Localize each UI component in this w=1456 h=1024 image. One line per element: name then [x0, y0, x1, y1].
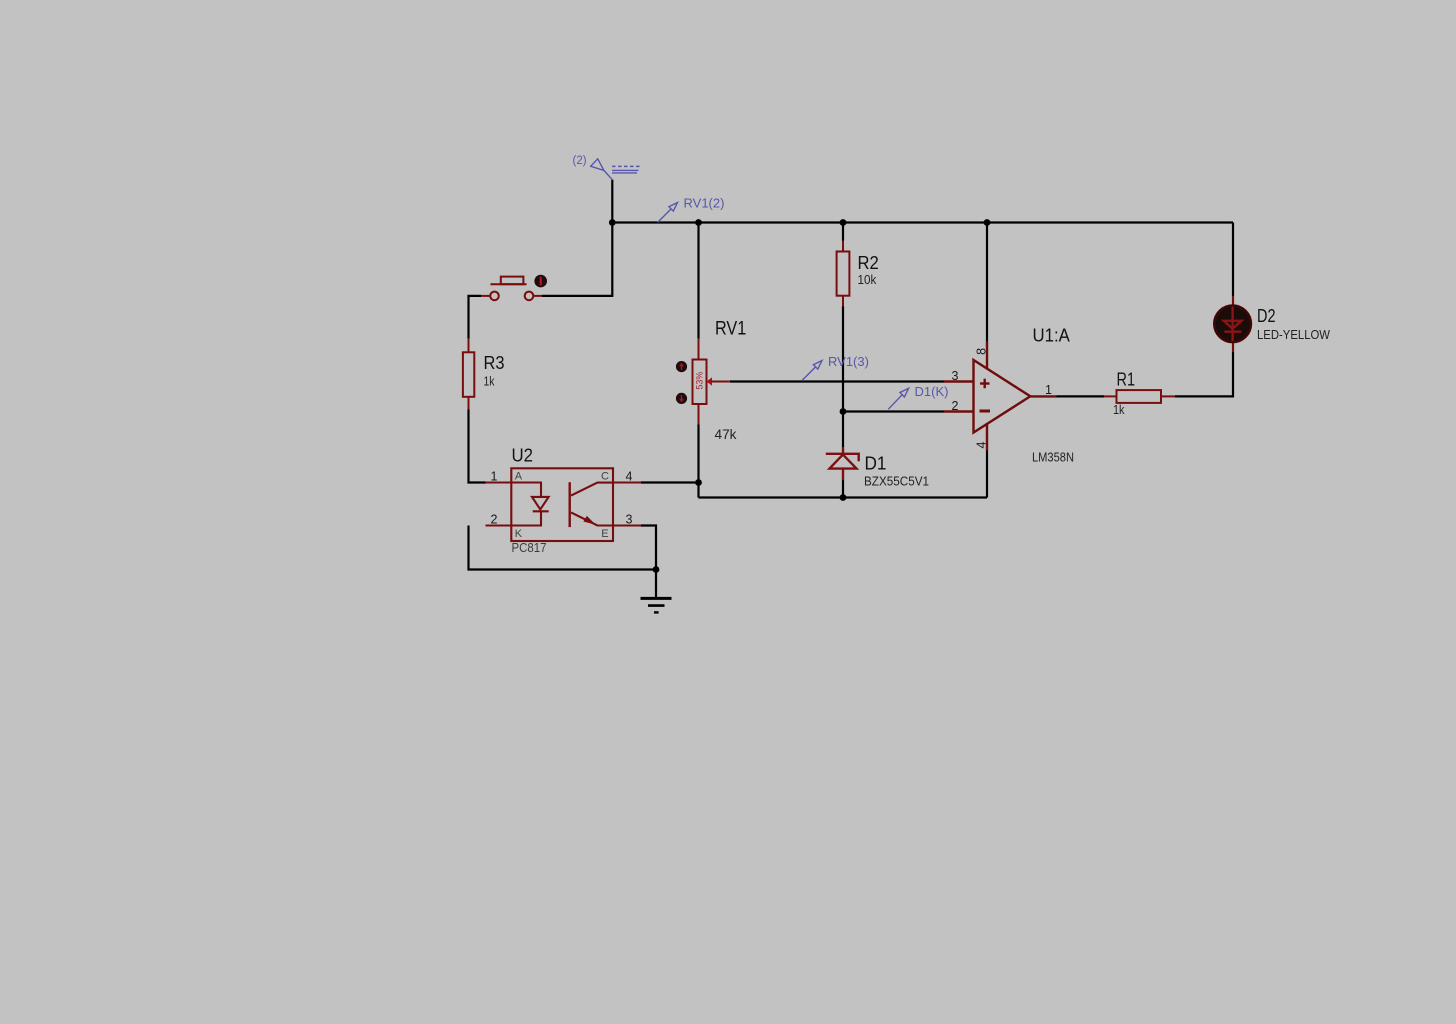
wire right rail top to D2 — [1232, 223, 1234, 297]
internal LED — [511, 483, 541, 497]
wire R2 top — [842, 223, 844, 241]
wire RV1 top — [697, 223, 699, 339]
svg-text:1k: 1k — [1113, 402, 1125, 417]
svg-text:1: 1 — [491, 470, 498, 484]
wire button left to R3 — [469, 296, 482, 339]
optocoupler U2 — [486, 468, 642, 541]
wire node to op-amp pin2 — [843, 410, 944, 412]
junction dots — [609, 219, 991, 573]
net label RV1(3) — [802, 361, 822, 381]
pin 3 stub — [613, 524, 641, 526]
phototransistor — [569, 482, 571, 527]
wire op-amp output to R1 — [1057, 395, 1105, 397]
svg-text:RV1(3): RV1(3) — [828, 354, 869, 369]
wire wiper to op-amp pin3 — [730, 380, 944, 382]
svg-text:D1: D1 — [865, 454, 887, 474]
svg-text:A: A — [515, 470, 523, 482]
pin4 stub — [986, 423, 988, 451]
svg-text:LM358N: LM358N — [1032, 450, 1074, 465]
svg-text:E: E — [601, 528, 608, 540]
U2 pin names — [515, 470, 609, 540]
svg-text:LED-YELLOW: LED-YELLOW — [1257, 328, 1330, 342]
svg-text:2: 2 — [491, 513, 498, 527]
button actuator marker — [534, 275, 547, 288]
resistor R2 — [837, 241, 850, 307]
emitter arrow — [583, 516, 595, 525]
op-amp U1:A — [944, 341, 1057, 451]
svg-text:D1(K): D1(K) — [915, 384, 949, 399]
node probe/top rail — [609, 219, 616, 226]
wire left drop to button — [542, 223, 612, 296]
zener diode D1 — [826, 447, 859, 480]
wire R1 to right rail — [1175, 352, 1233, 396]
wire U2 pin3 to ground node — [641, 526, 656, 599]
wire U2 pin2 loop — [469, 526, 657, 570]
svg-text:K: K — [515, 528, 523, 540]
RV1 down marker — [676, 393, 687, 404]
svg-text:53%: 53% — [695, 372, 705, 390]
svg-text:PC817: PC817 — [512, 540, 547, 555]
wire R2 to D1 — [842, 307, 844, 448]
node D1 bottom — [840, 494, 847, 501]
node inverting input — [840, 408, 847, 415]
node RV1 top — [695, 219, 702, 226]
plus — [980, 382, 990, 384]
svg-text:47k: 47k — [715, 427, 737, 442]
RV1 up marker — [676, 361, 687, 372]
svg-text:3: 3 — [626, 513, 633, 527]
wire RV1 bottom — [697, 425, 699, 498]
wire op-amp pin8 — [986, 223, 988, 342]
svg-text:RV1(2): RV1(2) — [684, 196, 725, 211]
svg-text:10k: 10k — [858, 272, 877, 287]
svg-text:BZX55C5V1: BZX55C5V1 — [864, 474, 929, 489]
voltage probe (2) — [591, 159, 640, 180]
net label RV1(2) — [658, 203, 678, 223]
pin8 stub — [986, 341, 988, 368]
ground — [641, 598, 672, 612]
svg-text:1k: 1k — [484, 374, 495, 389]
potentiometer RV1 — [693, 339, 707, 425]
wire op-amp pin4 — [986, 451, 988, 498]
svg-text:8: 8 — [974, 348, 988, 355]
svg-text:R2: R2 — [858, 253, 879, 273]
wire top rail — [612, 221, 1233, 223]
svg-text:U2: U2 — [512, 446, 534, 466]
svg-text:RV1: RV1 — [715, 319, 746, 340]
svg-text:R1: R1 — [1117, 369, 1136, 389]
svg-text:C: C — [601, 470, 609, 482]
svg-text:R3: R3 — [484, 353, 505, 373]
wire bottom rail — [699, 496, 988, 498]
svg-text:(2): (2) — [573, 155, 587, 167]
U2 pin numbers — [491, 470, 633, 527]
pin 4 stub — [613, 481, 641, 483]
wire R3 bottom to U2 pin1 — [469, 410, 486, 483]
wire probe stem — [611, 180, 613, 223]
LED D2 — [1232, 296, 1234, 307]
pin 2 stub — [486, 524, 512, 526]
push button switch — [481, 277, 542, 301]
svg-text:1: 1 — [1045, 383, 1052, 397]
pin2 stub — [944, 410, 974, 412]
node R2 top — [840, 219, 847, 226]
node op-amp pin8 — [984, 219, 991, 226]
pin3 stub — [944, 380, 974, 382]
resistor R1 — [1104, 390, 1175, 403]
output stub — [1030, 395, 1057, 397]
net label D1(K) — [888, 388, 908, 409]
resistor R3 — [463, 339, 474, 410]
pin 1 stub — [486, 481, 512, 483]
svg-text:D2: D2 — [1257, 306, 1276, 326]
op-amp pin numbers — [952, 348, 1052, 449]
node U2 pin4 — [695, 479, 702, 486]
minus — [980, 410, 991, 413]
svg-text:4: 4 — [974, 442, 988, 449]
svg-text:2: 2 — [952, 399, 959, 413]
svg-text:4: 4 — [626, 470, 633, 484]
svg-text:U1:A: U1:A — [1033, 326, 1070, 346]
node ground — [653, 566, 660, 573]
wire U2 pin4 to node — [641, 481, 699, 483]
wire D1 bottom — [842, 480, 844, 498]
RV1 wiper arrow — [707, 377, 713, 385]
svg-text:3: 3 — [952, 369, 959, 383]
